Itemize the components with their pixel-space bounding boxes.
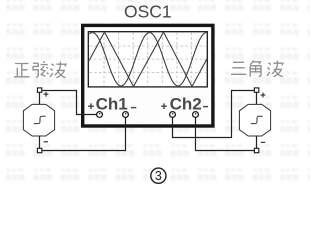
source V2 leads (256, 92, 258, 148)
label Ch1 (96, 94, 128, 113)
source V1 (sine generator) octagon (23, 104, 54, 136)
terminal Ch1 - (123, 112, 129, 118)
wire: Ch2 - terminal to source V2 - (196, 117, 255, 150)
svg-text:OSC1: OSC1 (124, 1, 172, 21)
label + of Ch1 (88, 103, 94, 109)
terminal Ch1 + (97, 112, 103, 118)
terminal Ch2 + (170, 112, 176, 118)
label - of Ch1 (131, 107, 136, 109)
oscilloscope U1 body (83, 25, 213, 126)
label Ch2 (170, 94, 202, 113)
figure number circled 3 (151, 168, 166, 183)
trace: sine wave (channel A) (89, 33, 206, 87)
source V2 + mark (261, 93, 266, 98)
source V1 - pin (37, 148, 41, 152)
node label 正弦波 (sine wave) (14, 61, 66, 78)
wire: source V1 - to Ch1 - terminal (42, 117, 125, 150)
wire: Ch2 + terminal to source V2 + (173, 91, 255, 138)
svg-text:Ch1: Ch1 (96, 94, 128, 113)
source V2 - pin (254, 148, 258, 152)
label - of Ch2 (203, 106, 208, 108)
svg-text:Ch2: Ch2 (170, 94, 202, 113)
source V1 + pin (37, 88, 41, 92)
trace: triangle wave (channel B) (75, 32, 221, 87)
terminal Ch2 - (193, 112, 199, 118)
source V1 + mark (44, 92, 49, 97)
label + of Ch2 (161, 103, 167, 109)
source V1 - mark (44, 141, 48, 143)
oscilloscope U1 label OSC1 (124, 1, 172, 21)
screen grid (89, 32, 207, 86)
svg-text:3: 3 (155, 169, 162, 183)
wire: source V1 + to Ch1 + terminal (42, 91, 97, 115)
source V2 (triangle generator) octagon (239, 104, 270, 136)
node label 三角波 (triangle wave) (231, 60, 283, 76)
source V2 waveform glyph (251, 116, 263, 123)
oscilloscope screen (88, 32, 207, 87)
source V2 + pin (254, 88, 258, 92)
source V1 leads (39, 92, 41, 148)
source V2 - mark (261, 141, 265, 143)
source V1 waveform glyph (34, 116, 46, 123)
